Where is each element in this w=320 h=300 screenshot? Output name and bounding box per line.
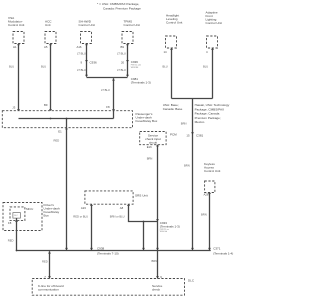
svg-text:WGH kd: WGH kd [160, 231, 167, 233]
wire headlight leveling K-line [171, 48, 173, 99]
svg-text:B9: B9 [121, 45, 125, 49]
junction dot driver wire at bus [16, 250, 18, 252]
svg-text:F8: F8 [106, 105, 110, 109]
svg-text:Canada: Premium Package: Canada: Premium Package [103, 6, 141, 10]
svg-text:BLU: BLU [163, 65, 168, 69]
arrowhead merged K-line out of C981 bar [112, 78, 115, 80]
svg-text:DLC: DLC [14, 215, 18, 217]
wire E1 K-line RED [66, 128, 68, 251]
wire SH-AWD K-line upper LT BLU [86, 44, 88, 77]
svg-text:A5: A5 [44, 45, 48, 49]
svg-text:(Terminals 7-10): (Terminals 7-10) [97, 252, 119, 256]
svg-text:Unit: Unit [45, 23, 51, 27]
wire stub E1 inside passenger box [66, 119, 68, 128]
svg-text:circuit: circuit [149, 140, 157, 144]
svg-text:Control Unit: Control Unit [8, 23, 24, 27]
wire VSA K-line BLU [18, 44, 20, 111]
terminal tick VSA [17, 44, 20, 46]
svg-text:LT BLU: LT BLU [117, 68, 126, 72]
svg-text:Fuse/Relay Box: Fuse/Relay Box [136, 119, 158, 123]
svg-text:* = USA: CMBS/PAX Package,: * = USA: CMBS/PAX Package, [97, 2, 139, 6]
terminal tick passenger E1 [65, 128, 68, 130]
junction dot C933 [143, 221, 145, 223]
wire AFS K-line [212, 48, 214, 99]
svg-text:BRN: BRN [201, 213, 207, 217]
svg-text:WRF/3M: WRF/3M [131, 67, 139, 69]
junction bar C981 [87, 77, 128, 79]
svg-text:E16: E16 [147, 145, 152, 149]
note: package legend [97, 2, 141, 10]
svg-text:LT BLU: LT BLU [117, 52, 126, 56]
svg-text:communication: communication [38, 287, 59, 291]
svg-text:LT BLU: LT BLU [77, 68, 86, 72]
svg-text:BRN: BRN [184, 164, 190, 168]
junction bar right merge [172, 98, 213, 100]
component box adaptive front lighting control unit [207, 36, 218, 48]
svg-text:RED: RED [8, 238, 14, 242]
label K-line for off-board communication [38, 284, 64, 292]
component box SH-AWD control unit [81, 32, 92, 44]
arrowhead SRS left wire into bus [90, 248, 93, 250]
note USA base Canada base [163, 103, 183, 111]
terminal tick headlight leveling [170, 48, 173, 50]
wire C933 drop [143, 222, 145, 251]
svg-text:LT BLU: LT BLU [77, 52, 86, 56]
svg-text:Control Unit: Control Unit [79, 23, 95, 27]
wire SRS left K-line RED or BLU [91, 204, 93, 250]
svg-text:B9: B9 [44, 103, 48, 107]
svg-text:A28: A28 [204, 192, 209, 196]
terminal tick passenger J3 [17, 109, 20, 111]
label keyless access control unit [204, 162, 220, 173]
svg-text:A23: A23 [81, 206, 86, 210]
wire merged K-line LT BLU [113, 78, 115, 111]
arrowhead SH-AWD wire into C981 bar [85, 75, 88, 78]
svg-text:F8: F8 [8, 221, 12, 225]
terminal tick passenger B9 [49, 109, 52, 111]
svg-text:PCM: PCM [170, 133, 177, 137]
svg-text:Control Unit: Control Unit [204, 169, 220, 173]
svg-text:E1: E1 [58, 129, 62, 133]
terminal tick SRS A8 [127, 205, 130, 207]
component box TPMS control unit [122, 32, 133, 44]
label VSA modulator-control unit [8, 16, 24, 27]
terminal tick passenger F8 [112, 109, 115, 111]
junction dot [50, 118, 52, 120]
svg-text:Box: Box [44, 214, 50, 218]
label SH-AWD control unit [79, 20, 95, 28]
terminal tick SRS A23 [90, 205, 93, 207]
svg-text:H1: H1 [13, 45, 17, 49]
terminal tick ACC [49, 44, 52, 46]
svg-text:C938: C938 [97, 246, 105, 250]
note Hawaii USA technology package [195, 103, 230, 124]
PCM box [140, 132, 166, 145]
wire SRS right K-line BRN or BLU [129, 204, 158, 221]
svg-text:(Terminals 1-3): (Terminals 1-3) [160, 225, 180, 229]
arrowhead K-line out of bus [48, 251, 51, 253]
passenger's under-dash fuse/relay box [2, 111, 132, 128]
wire keyless K-line BRN [209, 193, 211, 251]
label headlight leveling control unit [166, 14, 182, 25]
component box ACC unit [45, 32, 56, 44]
svg-text:Canada: Base: Canada: Base [163, 107, 183, 111]
arrowhead PCM wire into bus [156, 248, 159, 250]
svg-text:C371: C371 [213, 246, 221, 250]
wire bus to DLC terminal 7 RED [49, 251, 51, 278]
svg-text:BLU: BLU [41, 64, 46, 68]
service check input circuit text [145, 133, 161, 144]
svg-text:J3: J3 [12, 106, 15, 110]
wire driver's K-line RED [16, 218, 18, 250]
label driver's under-dash fuse/relay box [44, 203, 60, 218]
connector C933 arrow on PCM wire [156, 219, 159, 221]
wire merged right K-line BRN [192, 99, 194, 251]
label ACC unit [45, 20, 52, 28]
svg-text:C381: C381 [196, 134, 204, 138]
svg-text:Control Unit: Control Unit [124, 23, 140, 27]
svg-text:Control Unit: Control Unit [166, 21, 182, 25]
terminal tick keyless A28 [208, 193, 211, 195]
svg-text:BRN: BRN [181, 122, 187, 126]
svg-text:C936: C936 [90, 61, 98, 65]
label TPMS control unit [124, 20, 140, 28]
arrowhead right merged wire into bus [191, 248, 194, 250]
svg-text:BRN: BRN [152, 259, 158, 263]
wire PCM service check BRN [157, 145, 159, 251]
terminal tick SH-AWD [85, 44, 88, 46]
svg-text:RED: RED [54, 139, 60, 143]
svg-text:check: check [152, 287, 161, 291]
svg-text:LT BLU: LT BLU [101, 88, 110, 92]
wire TPMS K-line upper LT BLU [127, 44, 129, 77]
svg-text:DLC: DLC [188, 278, 195, 282]
main splice bus C938/C371 [17, 250, 211, 252]
svg-text:SRS Unit: SRS Unit [135, 194, 148, 198]
terminal tick PCM E16 [156, 145, 159, 147]
terminal tick AFS [211, 48, 214, 50]
svg-text:14: 14 [164, 50, 168, 54]
DLC box [32, 279, 184, 296]
svg-text:(Terminals 1-4): (Terminals 1-4) [213, 252, 233, 256]
DLC driver block [13, 213, 21, 219]
wire stub F8 inside passenger box [113, 111, 115, 119]
svg-text:C936: C936 [131, 60, 139, 64]
terminal tick driver F8 [15, 221, 18, 223]
svg-text:15: 15 [186, 134, 190, 138]
svg-text:A16: A16 [77, 45, 82, 49]
terminal tick TPMS [126, 44, 129, 46]
component box headlight leveling control unit [166, 36, 177, 48]
connector C381 terminal 15 arrow [191, 132, 194, 134]
svg-text:A8: A8 [120, 206, 124, 210]
svg-text:20: 20 [121, 61, 125, 65]
arrowhead C933 drop into bus [142, 248, 145, 250]
svg-text:Mexico: Mexico [195, 120, 205, 124]
MICU box [10, 207, 25, 221]
arrowhead keyless wire into bus [208, 248, 211, 250]
label service check [152, 284, 163, 292]
svg-text:BLU: BLU [203, 65, 208, 69]
label passenger's under-dash fuse/relay box [136, 112, 158, 123]
arrowhead into DLC terminal 9 [156, 276, 159, 278]
driver's under-dash fuse/relay box [3, 203, 42, 231]
svg-text:(Terminals 1-3): (Terminals 1-3) [131, 80, 151, 84]
svg-text:MICU: MICU [26, 207, 33, 211]
label adaptive front lighting control unit [206, 10, 222, 24]
internal bus line of passenger box [19, 118, 114, 120]
arrowhead TPMS wire into C981 bar [126, 75, 129, 78]
svg-text:BRN: BRN [147, 157, 153, 161]
arrowhead E1 wire into bus [65, 248, 68, 250]
connector C936 terminal 20 arrow [126, 60, 129, 62]
component box VSA modulator-control unit [13, 32, 24, 44]
arrowhead into DLC terminal 7 [48, 276, 51, 278]
svg-text:BLU: BLU [9, 64, 14, 68]
wire ACC K-line BLU [50, 44, 52, 111]
component box keyless access control unit [205, 181, 215, 193]
junction dot [66, 118, 68, 120]
svg-text:BRN or BLU: BRN or BLU [110, 215, 125, 219]
SRS unit box [85, 191, 133, 204]
svg-text:Control Unit: Control Unit [206, 21, 222, 25]
wire bus to DLC terminal 9 BRN [157, 251, 159, 279]
svg-text:RED: RED [42, 259, 48, 263]
svg-text:RED or BLU: RED or BLU [73, 215, 88, 219]
connector C936 terminal 9 arrow [85, 60, 88, 62]
